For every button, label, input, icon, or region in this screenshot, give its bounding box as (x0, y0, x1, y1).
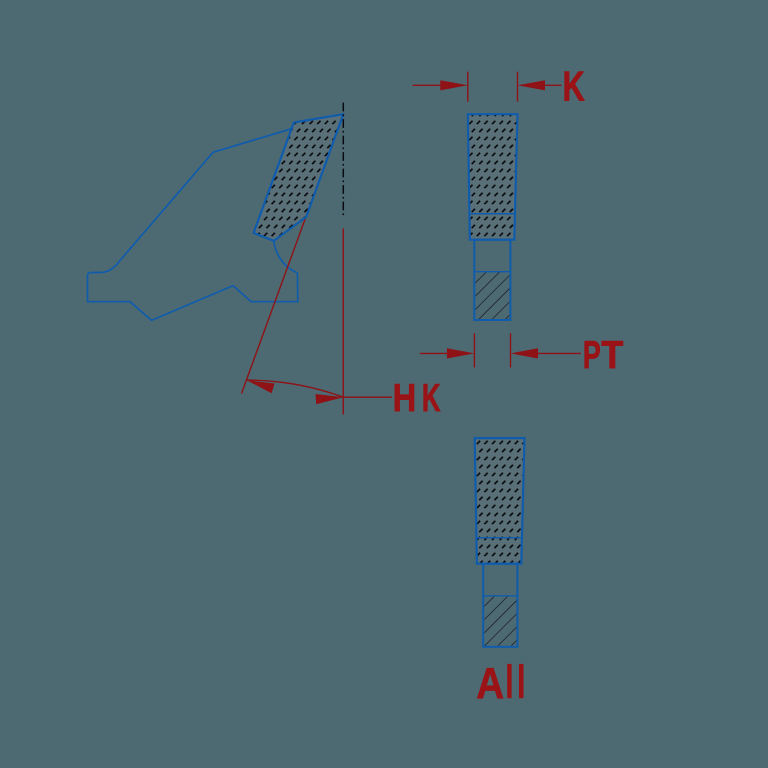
centerline (dash-dot, black) (342, 103, 344, 217)
plate outline (474, 240, 510, 320)
hook-angle line (red, through apex at 20deg) (242, 114, 344, 393)
wire: tooth body outline (88, 129, 298, 321)
svg-text:P: P (583, 334, 601, 377)
plate division line (474, 271, 510, 273)
dim line left + arrow (413, 84, 449, 86)
svg-text:K: K (422, 377, 441, 420)
HK leader line (343, 396, 392, 398)
dim line right + arrow (537, 84, 562, 86)
division line (469, 213, 515, 215)
svg-text:T: T (601, 334, 623, 377)
arc arrowhead left (tip at angled line) (245, 375, 274, 393)
svg-text:K: K (563, 62, 585, 109)
extension line left (467, 72, 469, 102)
plate hatched fill (lower) (475, 272, 509, 319)
svg-text:H: H (393, 377, 416, 420)
carbide tip (side view) with hatch (254, 114, 344, 241)
arc arrowhead right (tip at vertical line) (316, 392, 344, 404)
svg-text:A: A (476, 660, 504, 708)
extension line right (517, 72, 519, 102)
carbide block (468, 114, 518, 240)
HK dimension arc (247, 380, 344, 397)
centerline extension (red) (342, 228, 344, 414)
